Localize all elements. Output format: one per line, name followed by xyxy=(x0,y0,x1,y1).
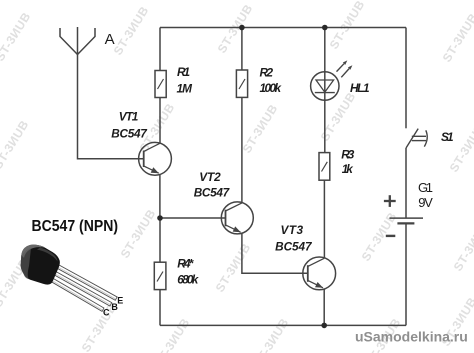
svg-text:VT3: VT3 xyxy=(281,223,304,237)
svg-text:BC547: BC547 xyxy=(194,186,231,200)
svg-text:ST-3ИUB: ST-3ИUB xyxy=(111,4,152,58)
svg-text:680k: 680k xyxy=(177,272,199,286)
svg-text:VT1: VT1 xyxy=(119,110,139,124)
svg-text:G1: G1 xyxy=(418,180,433,195)
svg-text:R3: R3 xyxy=(341,147,354,161)
svg-text:1k: 1k xyxy=(342,162,354,176)
svg-text:ST-3ИUB: ST-3ИUB xyxy=(451,220,474,274)
svg-text:R2: R2 xyxy=(260,65,274,79)
svg-text:ST-3ИUB: ST-3ИUB xyxy=(240,102,281,156)
svg-text:VT2: VT2 xyxy=(199,170,221,184)
svg-text:ST-3ИUB: ST-3ИUB xyxy=(318,90,359,144)
svg-text:B: B xyxy=(111,302,118,312)
svg-text:E: E xyxy=(117,295,123,305)
svg-text:A: A xyxy=(105,31,115,48)
svg-text:ST-3ИUB: ST-3ИUB xyxy=(251,316,292,353)
svg-text:BC547: BC547 xyxy=(111,127,148,141)
svg-text:BC547: BC547 xyxy=(275,240,313,254)
svg-text:ST-3ИUB: ST-3ИUB xyxy=(440,11,474,65)
svg-text:S1: S1 xyxy=(441,130,454,144)
svg-text:ST-3ИUB: ST-3ИUB xyxy=(0,10,34,64)
svg-text:ST-3ИUB: ST-3ИUB xyxy=(447,121,474,175)
svg-text:1M: 1M xyxy=(177,81,194,95)
svg-text:BC547 (NPN): BC547 (NPN) xyxy=(32,218,119,235)
svg-text:9V: 9V xyxy=(418,195,433,210)
svg-text:ST-3ИUB: ST-3ИUB xyxy=(118,207,159,261)
svg-text:100k: 100k xyxy=(260,81,283,95)
svg-text:ST-3ИUB: ST-3ИUB xyxy=(327,0,368,52)
svg-text:HL1: HL1 xyxy=(350,81,370,95)
svg-text:ST-3ИUB: ST-3ИUB xyxy=(213,241,254,295)
svg-text:ST-3ИUB: ST-3ИUB xyxy=(152,316,193,353)
svg-text:R1: R1 xyxy=(177,65,190,79)
svg-text:ST-3ИUB: ST-3ИUB xyxy=(215,2,256,56)
svg-text:uSamodelkina.ru: uSamodelkina.ru xyxy=(355,329,468,345)
svg-text:R4*: R4* xyxy=(177,256,194,270)
svg-text:ST-3ИUB: ST-3ИUB xyxy=(0,118,32,172)
svg-text:C: C xyxy=(103,307,110,317)
